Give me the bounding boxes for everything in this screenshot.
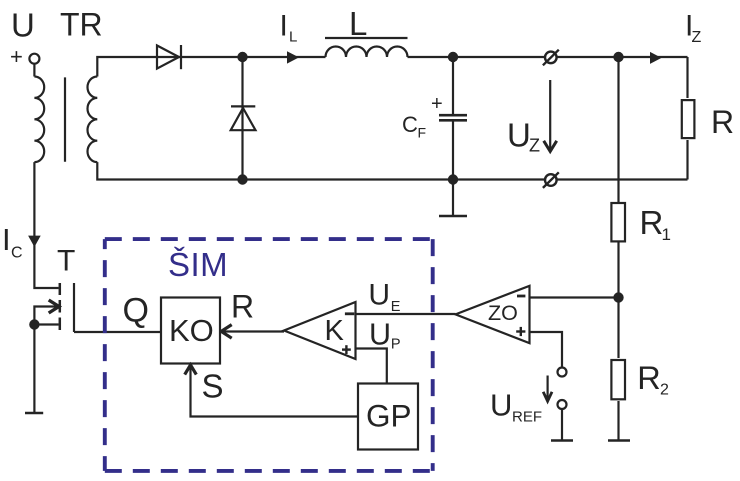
wire R1 to node F <box>617 243 619 359</box>
wire node D to ground <box>452 180 454 216</box>
svg-text:R: R <box>637 360 660 396</box>
wire GP to KO S input <box>191 365 359 417</box>
node B (bottom of freewheeling diode) <box>237 174 247 184</box>
U_REF arrow <box>546 376 548 401</box>
svg-text:K: K <box>325 315 345 347</box>
source terminal circle <box>29 54 39 64</box>
svg-text:C: C <box>402 112 418 137</box>
wire U_REF to ground <box>561 409 563 440</box>
svg-text:Z: Z <box>692 29 702 46</box>
wire primary bottom to transistor drain <box>34 162 58 288</box>
svg-text:REF: REF <box>512 408 542 425</box>
wire resistor R to bottom rail <box>686 140 688 180</box>
svg-text:I: I <box>2 222 11 257</box>
svg-text:ŠIM: ŠIM <box>168 246 228 283</box>
wire node A down to bottom rail (through diode D2) <box>241 57 243 180</box>
svg-text:R: R <box>231 289 254 325</box>
svg-text:GP: GP <box>366 398 412 434</box>
ground (divider) <box>608 439 630 441</box>
wire secondary top to node A (through diode D1) <box>97 57 242 77</box>
wire K output to KO R input <box>221 330 284 332</box>
svg-text:1: 1 <box>662 225 671 244</box>
wire output corner down to resistor R <box>686 57 688 98</box>
inductor core bar <box>325 37 408 39</box>
svg-text:S: S <box>202 368 224 405</box>
arrow into KO S input <box>185 365 197 375</box>
wire KO Q output to transistor gate <box>74 331 161 333</box>
inductor L winding <box>326 47 408 57</box>
PWM controller dashed box SIM <box>105 239 433 471</box>
current arrow I_L <box>287 51 299 63</box>
resistor R1 <box>611 203 625 241</box>
diode D2 (freewheeling) <box>231 105 255 107</box>
U_REF terminal circle upper <box>558 368 567 377</box>
wire K plus input to GP <box>356 349 387 384</box>
wire node C down to capacitor <box>452 57 454 114</box>
measuring terminal bottom (circle with slash) <box>545 174 557 186</box>
svg-text:TR: TR <box>60 7 103 43</box>
resistor R <box>682 100 695 138</box>
svg-text:KO: KO <box>169 313 214 348</box>
svg-text:ZO: ZO <box>488 301 518 325</box>
svg-text:E: E <box>391 299 401 315</box>
sawtooth generator GP box <box>358 384 418 450</box>
wire inductor to output corner <box>408 56 688 58</box>
svg-text:+: + <box>431 93 443 115</box>
wire source to ground <box>33 325 35 413</box>
node F (divider tap) <box>613 292 623 302</box>
svg-text:C: C <box>11 244 23 261</box>
ZO minus sign <box>517 295 525 298</box>
svg-text:R: R <box>711 104 734 140</box>
wire ZO non-inverting input to U_REF <box>530 332 563 368</box>
svg-text:2: 2 <box>660 382 669 399</box>
K plus sign <box>342 348 351 350</box>
svg-text:I: I <box>280 9 288 42</box>
node A (top of freewheeling diode) <box>237 52 247 62</box>
wire secondary bottom to bottom rail <box>97 162 242 179</box>
node G (source junction) <box>29 319 39 329</box>
transformer secondary winding <box>88 77 98 163</box>
transistor T source wire <box>34 323 58 325</box>
comparator K <box>284 302 356 359</box>
transformer core <box>64 77 66 161</box>
svg-text:+: + <box>10 44 23 69</box>
svg-text:L: L <box>289 29 297 46</box>
U_REF terminal circle lower <box>558 400 567 409</box>
transistor T gate bar <box>73 283 75 332</box>
diode D1 <box>157 46 179 69</box>
bottom rail wire <box>243 178 688 180</box>
svg-text:L: L <box>349 5 367 42</box>
svg-text:U: U <box>369 317 391 351</box>
node E (load branch node) <box>613 52 623 62</box>
wire node A to inductor <box>243 56 326 58</box>
node C (capacitor top) <box>448 52 458 62</box>
ground (transistor source) <box>25 412 43 414</box>
wire source terminal to primary winding <box>33 64 35 77</box>
wire capacitor to bottom rail <box>452 120 454 179</box>
wire node F to op-amp ZO inverting input <box>530 296 619 298</box>
current arrow I_Z <box>650 52 662 64</box>
ZO plus sign <box>516 330 525 332</box>
ground (U_REF) <box>551 439 573 441</box>
resistor R2 <box>611 360 625 399</box>
transistor T channel segments <box>59 283 62 295</box>
measuring terminal top (circle with slash) <box>545 52 557 64</box>
capacitor CF plates <box>439 114 467 117</box>
svg-text:R: R <box>640 204 664 241</box>
svg-text:U: U <box>490 387 512 422</box>
current arrow I_C <box>28 236 41 247</box>
U_Z arrow <box>549 80 551 151</box>
arrow into KO R input <box>221 325 232 339</box>
svg-text:U: U <box>11 7 35 44</box>
svg-text:P: P <box>391 336 401 352</box>
wire node E down to R1 (crosses bottom rail) <box>617 57 619 202</box>
transistor T bulk arrow <box>34 307 58 325</box>
svg-text:Q: Q <box>123 292 149 330</box>
svg-text:F: F <box>418 125 427 141</box>
svg-text:U: U <box>507 116 531 153</box>
op-amp ZO <box>456 286 530 343</box>
svg-text:Z: Z <box>529 136 540 156</box>
wire R2 to ground <box>617 401 619 440</box>
flip-flop KO box <box>161 298 220 364</box>
svg-text:U: U <box>368 278 390 311</box>
svg-text:T: T <box>57 245 75 278</box>
transformer primary winding <box>34 77 44 163</box>
ground (output filter) <box>439 215 467 217</box>
K minus sign <box>345 312 354 315</box>
node D (capacitor bottom) <box>448 174 458 184</box>
wire ZO output to comparator K (U_E) <box>356 313 456 315</box>
